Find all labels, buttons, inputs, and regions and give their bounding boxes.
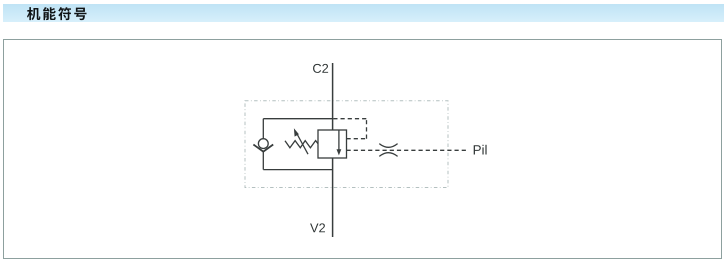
node Pil label	[474, 145, 481, 154]
orifice lower arc	[379, 153, 397, 157]
wire: C2 vertical line	[332, 63, 334, 130]
pilot dashed tap: horizontal into valve right side	[347, 138, 367, 140]
header bar	[3, 4, 724, 22]
check valve ball	[258, 139, 268, 149]
pilot dashed line to Pil port	[347, 149, 467, 151]
adjustment arrowhead	[294, 128, 299, 136]
check valve seat	[253, 145, 273, 152]
wire: check branch left rail (lower)	[262, 152, 264, 170]
wire: V2 vertical line	[332, 158, 334, 237]
wire: check branch left rail (upper)	[262, 119, 264, 139]
title text 机能符号 (vectorized)	[0, 0, 100, 26]
envelope (component boundary, dash-dot)	[245, 101, 448, 188]
adjustable spring zigzag	[285, 141, 318, 148]
wire: check branch top rail	[263, 118, 332, 120]
node V2 label	[310, 223, 318, 232]
flow path arrowhead	[337, 149, 342, 155]
wire: check branch bottom rail	[263, 169, 332, 171]
pilot dashed tap: horizontal from C2 line	[333, 118, 366, 120]
orifice upper arc	[379, 144, 397, 148]
adjustment arrow shaft	[297, 133, 309, 154]
pilot dashed tap: vertical drop	[366, 119, 368, 139]
relief valve body U1	[318, 130, 347, 158]
flow path line inside valve	[338, 130, 340, 150]
node C2 label	[313, 64, 321, 73]
